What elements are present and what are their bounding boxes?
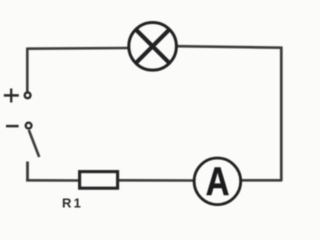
svg-text:1: 1 — [74, 196, 81, 211]
svg-text:R: R — [62, 196, 72, 211]
svg-text:A: A — [206, 159, 230, 204]
